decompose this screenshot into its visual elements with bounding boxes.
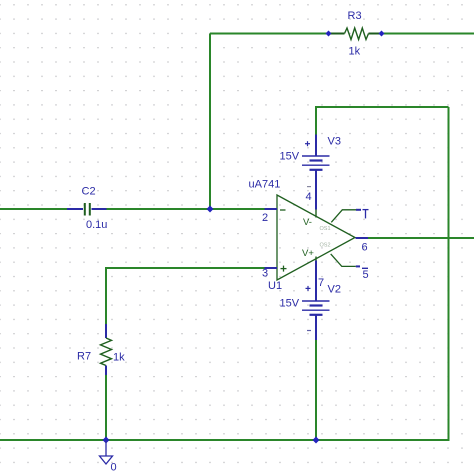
capacitor C2 bbox=[67, 203, 107, 216]
svg-text:R7: R7 bbox=[77, 351, 91, 363]
svg-text:C2: C2 bbox=[82, 186, 96, 198]
wire right vertical bbox=[448, 107, 450, 441]
junction dot R7 ground rail bbox=[103, 437, 110, 444]
svg-text:5: 5 bbox=[363, 269, 369, 281]
label pin 1 (overbar) bbox=[363, 210, 369, 219]
svg-text:uA741: uA741 bbox=[249, 179, 281, 191]
wire input node to op-amp bbox=[106, 208, 265, 210]
wire R7 bottom to ground rail bbox=[105, 375, 107, 442]
svg-text:6: 6 bbox=[362, 242, 368, 254]
ground 0 symbol bbox=[100, 440, 113, 464]
svg-text:U1: U1 bbox=[268, 280, 282, 292]
plus mark V2 bbox=[306, 286, 311, 291]
wire bbox=[369, 33, 474, 35]
wire vertical from top rail to input node bbox=[209, 34, 211, 210]
junction dot right of R3 bbox=[379, 31, 385, 37]
wire V2 bottom to ground rail bbox=[315, 340, 317, 440]
svg-text:4: 4 bbox=[306, 191, 312, 203]
svg-text:OS2: OS2 bbox=[320, 243, 331, 249]
svg-text:R3: R3 bbox=[348, 10, 362, 22]
svg-text:V2: V2 bbox=[328, 284, 341, 296]
wire pin3 horizontal bbox=[106, 267, 265, 269]
pin 4 V- supply stub bbox=[303, 209, 316, 228]
junction dot left of R3 bbox=[326, 31, 332, 37]
junction node input bbox=[207, 206, 214, 213]
svg-text:V+: V+ bbox=[302, 248, 314, 259]
pin 7 V+ supply stub bbox=[302, 248, 316, 261]
minus mark V3 bbox=[307, 186, 311, 188]
svg-text:15V: 15V bbox=[280, 298, 300, 310]
svg-text:0: 0 bbox=[111, 462, 117, 474]
battery V3 bbox=[302, 135, 330, 210]
svg-text:V-: V- bbox=[303, 217, 312, 228]
svg-text:7: 7 bbox=[318, 277, 324, 289]
svg-text:1k: 1k bbox=[349, 46, 361, 58]
op-amp U1 triangle bbox=[277, 195, 355, 280]
svg-text:V3: V3 bbox=[328, 136, 341, 148]
pin 2 lead bbox=[265, 208, 278, 210]
svg-text:0.1u: 0.1u bbox=[86, 219, 107, 231]
wire input left segment bbox=[0, 208, 67, 210]
svg-text:3: 3 bbox=[262, 268, 268, 280]
plus mark V3 bbox=[305, 141, 310, 146]
resistor R7 bbox=[101, 324, 112, 375]
svg-text:15V: 15V bbox=[280, 151, 300, 163]
wire bottom ground rail bbox=[0, 439, 449, 441]
plus mark non-inverting input bbox=[281, 266, 287, 272]
junction dot V2 ground rail bbox=[313, 437, 320, 444]
wire output bbox=[368, 237, 474, 239]
wire V3 top rail bbox=[316, 107, 449, 135]
svg-text:OS1: OS1 bbox=[320, 226, 331, 232]
minus mark inverting input bbox=[280, 209, 286, 211]
pin 5 offset null lead bbox=[331, 254, 360, 267]
pin 3 lead bbox=[265, 267, 278, 269]
minus mark V2 bbox=[307, 330, 311, 332]
pin 1 offset null lead bbox=[331, 210, 361, 223]
wire pin3 vertical down to R7 bbox=[105, 267, 107, 325]
resistor R3 bbox=[329, 28, 382, 40]
battery V2 bbox=[302, 261, 330, 341]
label pin 5 (overbar) bbox=[362, 268, 369, 281]
pin 6 output lead bbox=[356, 237, 369, 239]
svg-text:1k: 1k bbox=[113, 352, 125, 364]
wire bbox=[210, 33, 345, 35]
svg-text:2: 2 bbox=[262, 212, 268, 224]
